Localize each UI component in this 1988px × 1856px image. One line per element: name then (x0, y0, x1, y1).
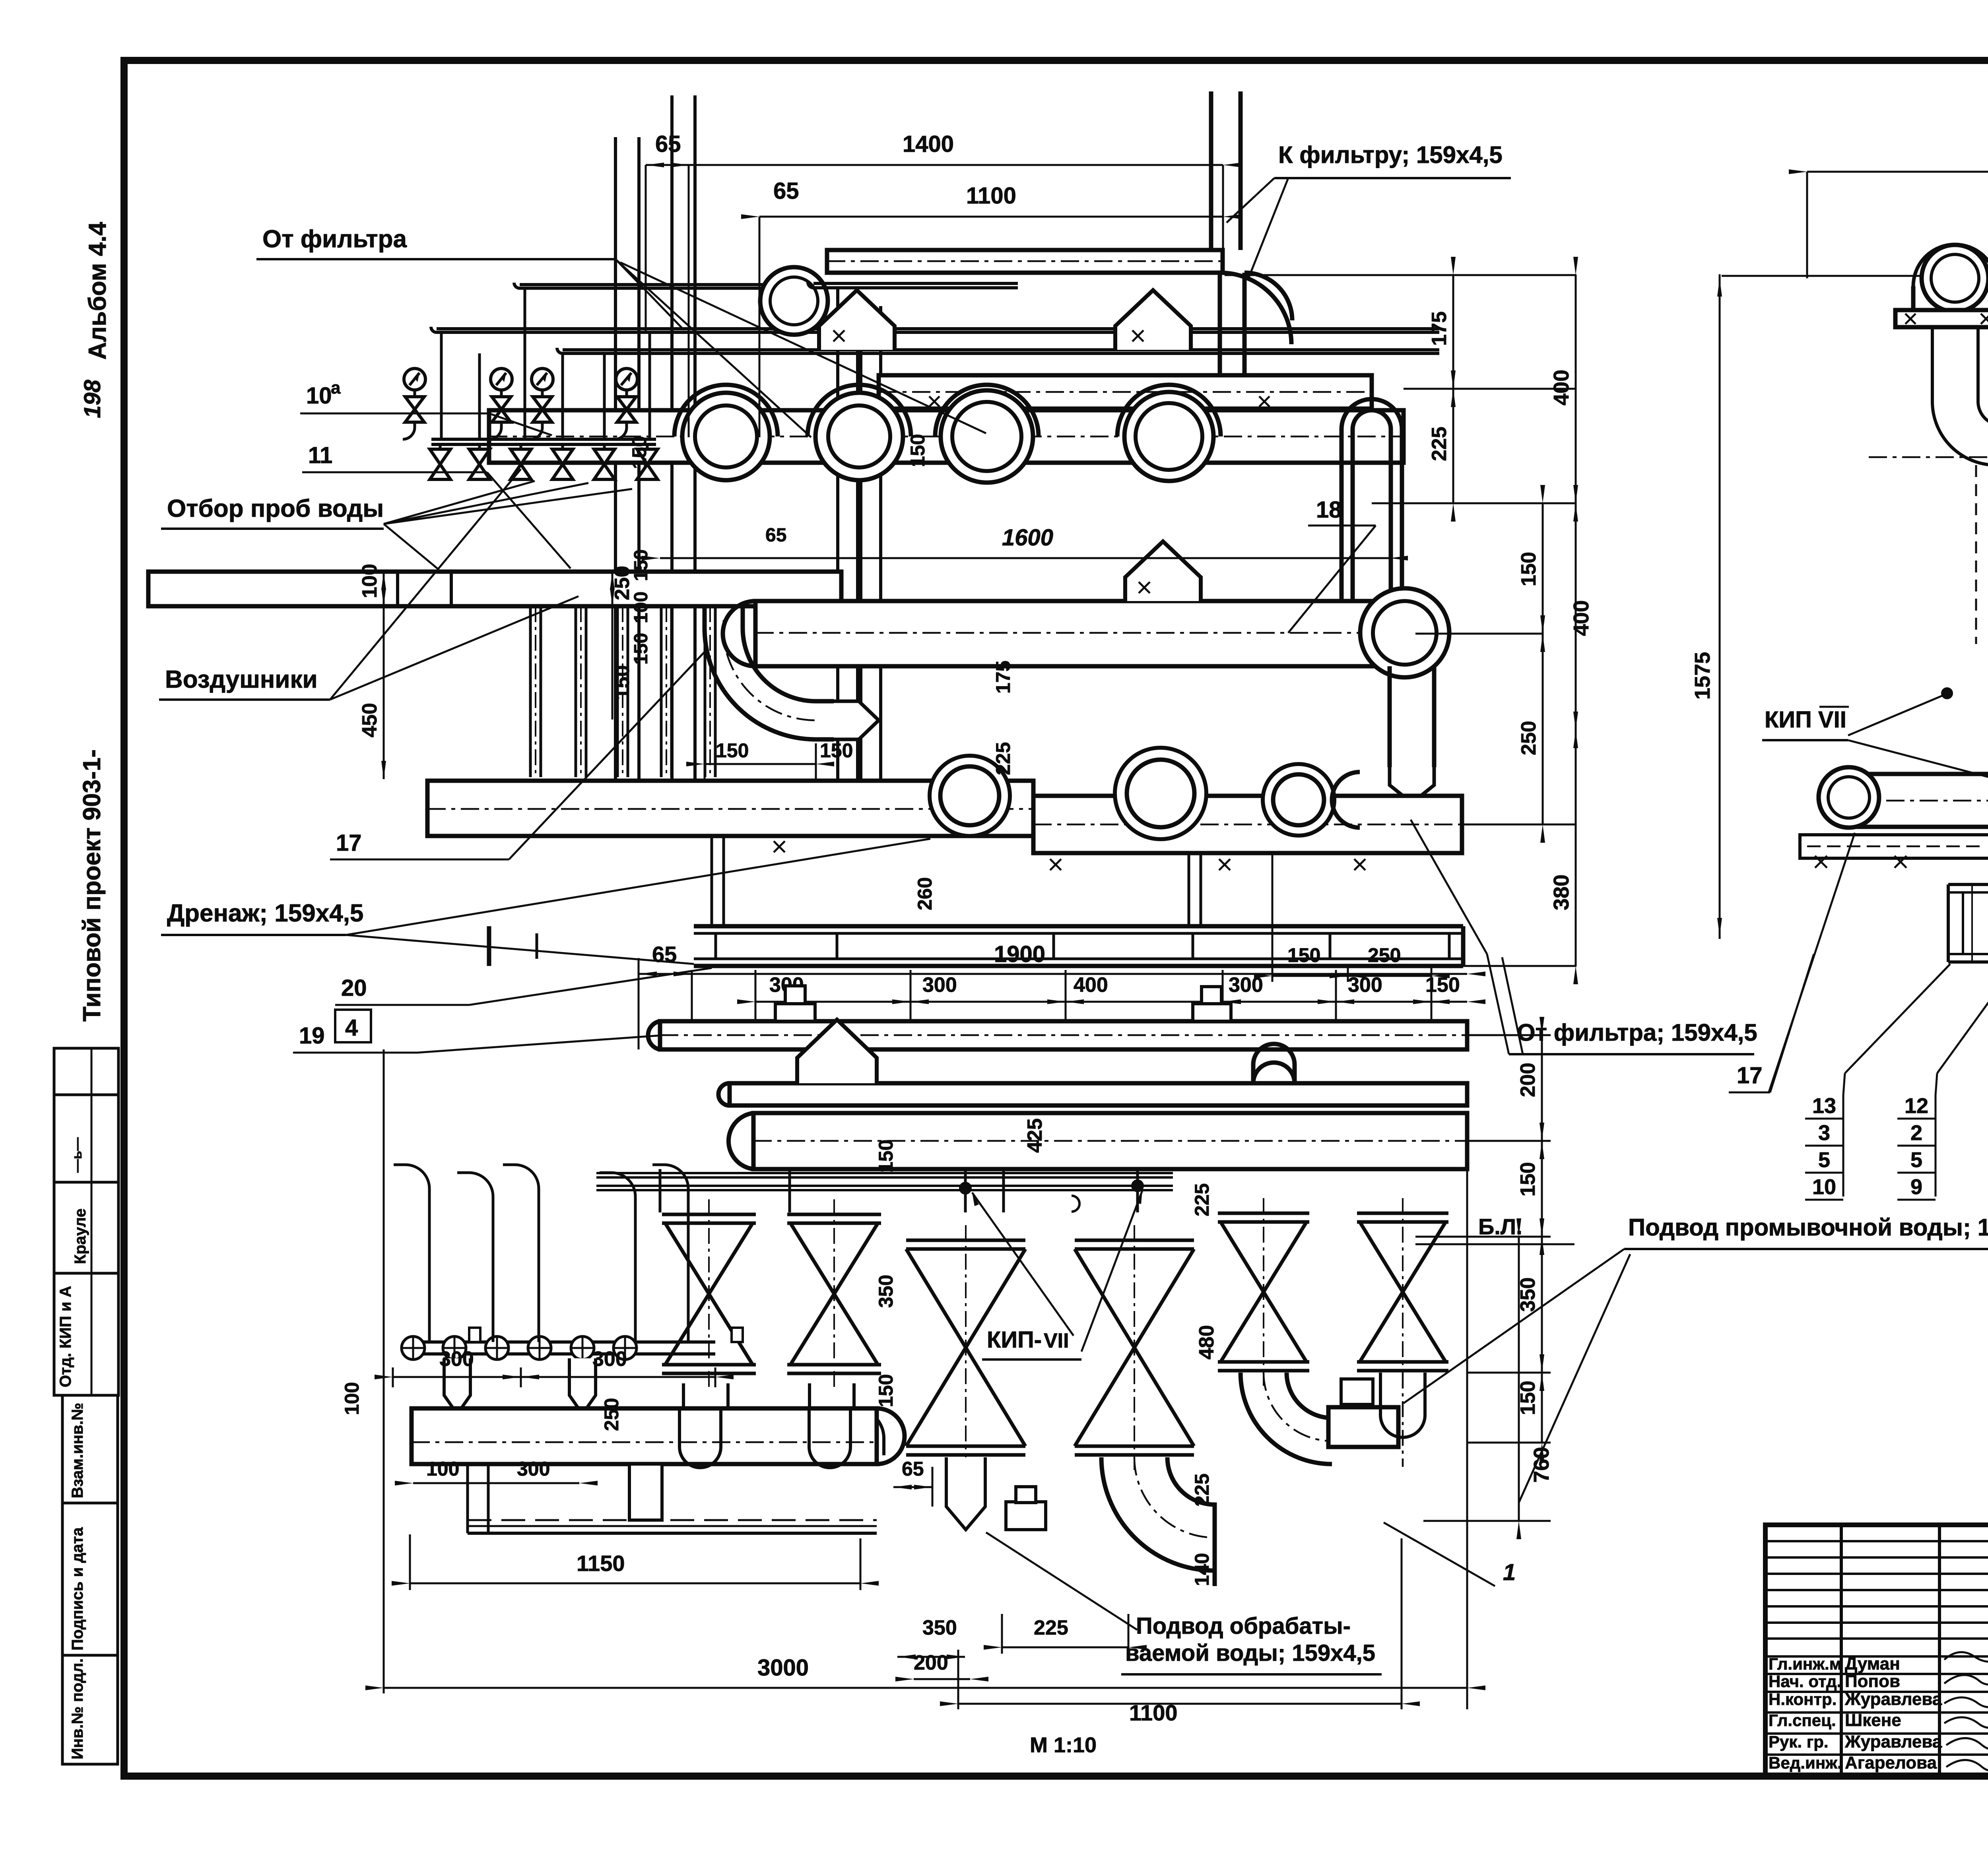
svg-text:300: 300 (922, 974, 957, 997)
svg-text:175: 175 (992, 661, 1014, 694)
svg-text:1900: 1900 (994, 941, 1045, 967)
svg-text:225: 225 (1034, 1616, 1068, 1639)
svg-text:250: 250 (1517, 721, 1540, 755)
svg-text:350: 350 (922, 1616, 957, 1639)
svg-text:Крауле: Крауле (72, 1208, 89, 1264)
svg-text:150: 150 (716, 739, 749, 762)
svg-text:250: 250 (1368, 944, 1401, 966)
svg-text:260: 260 (914, 877, 936, 910)
svg-text:1: 1 (1503, 1559, 1516, 1585)
svg-text:Отбор проб воды: Отбор проб воды (167, 495, 384, 522)
svg-text:150: 150 (875, 1140, 897, 1173)
svg-text:Вед.инж.: Вед.инж. (1769, 1753, 1842, 1772)
svg-text:Нач. отд.: Нач. отд. (1769, 1672, 1841, 1691)
svg-text:1600: 1600 (1002, 525, 1053, 551)
svg-text:300: 300 (517, 1458, 550, 1480)
svg-text:150: 150 (820, 739, 853, 762)
svg-text:300: 300 (439, 1348, 474, 1371)
svg-text:Типовой проект 903-1-: Типовой проект 903-1- (78, 749, 106, 1022)
svg-text:300: 300 (592, 1348, 627, 1371)
svg-text:2: 2 (1910, 1121, 1922, 1145)
svg-text:150: 150 (1516, 1162, 1540, 1197)
svg-text:65: 65 (655, 131, 681, 157)
svg-text:К фильтру; 159х4,5: К фильтру; 159х4,5 (1278, 142, 1503, 168)
svg-text:КИП-: КИП- (987, 1327, 1042, 1353)
svg-text:100: 100 (426, 1458, 459, 1480)
svg-text:Инв.№ подл.: Инв.№ подл. (69, 1658, 86, 1759)
svg-text:150: 150 (1516, 1381, 1540, 1415)
svg-text:198: 198 (80, 379, 105, 418)
svg-text:3: 3 (1818, 1121, 1830, 1145)
svg-text:175: 175 (1428, 311, 1451, 346)
svg-text:225: 225 (1191, 1474, 1213, 1507)
svg-text:150: 150 (631, 549, 652, 581)
svg-text:Воздушники: Воздушники (165, 666, 318, 693)
svg-text:425: 425 (1023, 1118, 1046, 1153)
svg-text:225: 225 (1428, 427, 1451, 461)
svg-text:250: 250 (600, 1398, 623, 1431)
svg-text:5: 5 (1910, 1148, 1922, 1172)
svg-text:150: 150 (875, 1374, 897, 1407)
svg-text:450: 450 (358, 703, 381, 737)
svg-text:400: 400 (1074, 974, 1108, 997)
svg-text:От фильтра; 159х4,5: От фильтра; 159х4,5 (1517, 1019, 1757, 1046)
svg-text:От фильтра: От фильтра (262, 225, 407, 253)
svg-text:20: 20 (341, 975, 367, 1001)
svg-text:Подвод обрабаты-: Подвод обрабаты- (1136, 1613, 1351, 1639)
svg-text:65: 65 (902, 1458, 924, 1480)
svg-text:19: 19 (299, 1023, 325, 1049)
svg-text:Н.контр.: Н.контр. (1769, 1690, 1837, 1709)
svg-text:1400: 1400 (903, 131, 954, 157)
svg-text:Подпись и дата: Подпись и дата (69, 1527, 86, 1650)
svg-text:а: а (331, 378, 341, 398)
svg-text:Альбом 4.4: Альбом 4.4 (84, 222, 111, 360)
svg-text:Журавлева: Журавлева (1844, 1689, 1942, 1709)
svg-text:4: 4 (345, 1015, 358, 1041)
svg-text:18: 18 (1316, 497, 1342, 523)
svg-text:65: 65 (765, 525, 786, 546)
svg-text:150: 150 (1287, 944, 1320, 966)
svg-text:ваемой воды; 159х4,5: ваемой воды; 159х4,5 (1125, 1640, 1375, 1666)
svg-text:100: 100 (631, 592, 652, 623)
svg-text:Шкене: Шкене (1845, 1711, 1901, 1730)
svg-text:100: 100 (358, 564, 381, 598)
svg-text:VII: VII (1044, 1329, 1069, 1352)
svg-text:13: 13 (1812, 1094, 1836, 1118)
svg-text:150: 150 (907, 434, 929, 467)
svg-text:225: 225 (992, 742, 1014, 775)
svg-text:300: 300 (1229, 974, 1263, 997)
svg-text:200: 200 (1516, 1063, 1540, 1097)
svg-text:Гл.спец.: Гл.спец. (1769, 1711, 1836, 1730)
svg-text:10: 10 (1812, 1175, 1836, 1199)
svg-text:150: 150 (628, 436, 650, 469)
svg-text:1100: 1100 (1129, 1700, 1178, 1725)
svg-text:17: 17 (336, 830, 362, 856)
svg-text:Отд. КИП и А: Отд. КИП и А (57, 1286, 74, 1387)
svg-text:Агарелова: Агарелова (1845, 1753, 1937, 1773)
svg-text:400: 400 (1549, 370, 1573, 405)
svg-text:Б.Л.: Б.Л. (1478, 1214, 1522, 1239)
svg-text:150: 150 (1517, 552, 1540, 586)
svg-text:12: 12 (1905, 1094, 1928, 1118)
svg-text:400: 400 (1569, 600, 1593, 636)
svg-text:5: 5 (1818, 1148, 1830, 1172)
svg-text:350: 350 (875, 1275, 897, 1308)
svg-text:380: 380 (1549, 875, 1573, 910)
svg-text:17: 17 (1737, 1063, 1763, 1088)
svg-text:140: 140 (1191, 1553, 1213, 1586)
svg-text:Подвод промывочной воды; 10: Подвод промывочной воды; 108х3,5 (1628, 1214, 1988, 1241)
svg-text:350: 350 (1516, 1277, 1540, 1312)
svg-text:9: 9 (1910, 1175, 1922, 1199)
svg-text:—ь—: —ь— (70, 1137, 85, 1173)
svg-text:1150: 1150 (577, 1551, 625, 1576)
svg-text:Гл.инж.м: Гл.инж.м (1769, 1654, 1842, 1673)
svg-text:Думан: Думан (1845, 1654, 1900, 1674)
svg-text:150: 150 (631, 633, 652, 665)
svg-text:Взам.инв.№: Взам.инв.№ (69, 1403, 86, 1498)
svg-text:100: 100 (341, 1382, 363, 1415)
svg-text:Попов: Попов (1845, 1672, 1900, 1691)
svg-text:300: 300 (1348, 974, 1382, 997)
svg-text:1575: 1575 (1691, 652, 1714, 700)
svg-text:3000: 3000 (757, 1655, 809, 1681)
svg-text:65: 65 (773, 178, 799, 204)
svg-text:225: 225 (1191, 1183, 1213, 1216)
svg-text:М 1:10: М 1:10 (1030, 1733, 1097, 1757)
svg-text:150: 150 (611, 665, 634, 700)
svg-text:65: 65 (652, 942, 677, 967)
svg-text:200: 200 (914, 1651, 948, 1674)
svg-text:11: 11 (308, 442, 332, 468)
svg-text:480: 480 (1195, 1325, 1218, 1360)
svg-text:Дренаж; 159х4,5: Дренаж; 159х4,5 (167, 900, 363, 927)
svg-text:Рук. гр.: Рук. гр. (1769, 1732, 1829, 1751)
svg-text:КИП VII: КИП VII (1765, 707, 1846, 733)
svg-text:Журавлева: Журавлева (1844, 1732, 1942, 1751)
svg-text:1100: 1100 (966, 183, 1016, 209)
svg-text:10: 10 (306, 383, 332, 409)
